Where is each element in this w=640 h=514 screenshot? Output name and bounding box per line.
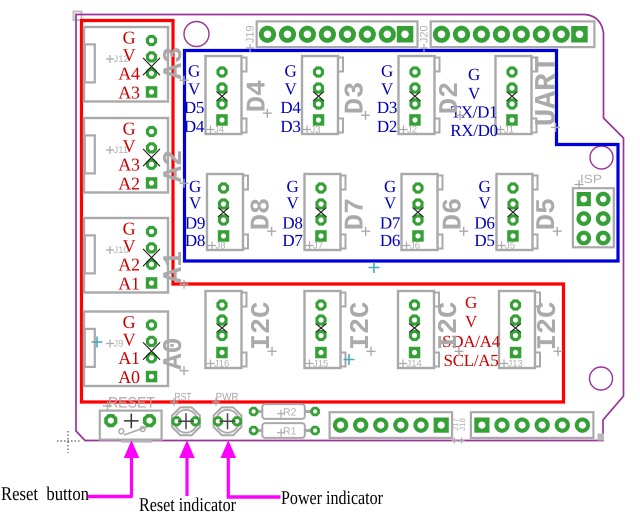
svg-text:J20: J20 xyxy=(419,25,431,43)
connector J6 xyxy=(402,174,443,252)
resistor R2 xyxy=(249,404,320,419)
svg-text:RX/D0: RX/D0 xyxy=(450,121,498,140)
svg-text:I2C: I2C xyxy=(435,302,465,351)
net label D7 xyxy=(342,198,372,236)
net label D6 xyxy=(440,198,470,236)
svg-text:D7: D7 xyxy=(380,214,401,233)
svg-text:V: V xyxy=(384,194,397,213)
svg-text:V: V xyxy=(123,45,136,65)
svg-text:D5: D5 xyxy=(474,231,494,250)
LED indicator RST LED xyxy=(171,407,200,435)
svg-text:D5: D5 xyxy=(533,198,563,230)
svg-text:A0: A0 xyxy=(118,367,140,387)
origin marker xyxy=(57,431,80,453)
net label UART xyxy=(530,56,564,132)
designator J19 xyxy=(245,25,257,52)
svg-text:V: V xyxy=(468,84,481,103)
LED indicator PWR LED xyxy=(213,407,242,435)
blue highlight box (digital) xyxy=(185,51,619,262)
designator J17 xyxy=(451,418,460,444)
connector J1 xyxy=(496,56,537,136)
svg-text:G: G xyxy=(465,293,477,312)
net label A0 xyxy=(160,337,190,375)
svg-text:J19: J19 xyxy=(245,25,257,43)
net label I2C-4 xyxy=(534,302,564,356)
pin labels J2 xyxy=(377,62,397,137)
svg-text:D8: D8 xyxy=(248,198,278,230)
pin labels J10 xyxy=(118,219,139,294)
net label I2C-2 xyxy=(347,302,377,356)
board outline xyxy=(76,15,624,441)
svg-text:J5: J5 xyxy=(505,241,515,252)
svg-text:A2: A2 xyxy=(160,150,190,182)
svg-text:V: V xyxy=(123,136,136,156)
connector J12 xyxy=(84,27,168,102)
svg-text:J6: J6 xyxy=(410,241,420,252)
svg-text:J16: J16 xyxy=(214,359,229,370)
svg-text:SCL/A5: SCL/A5 xyxy=(444,351,499,370)
svg-text:A1: A1 xyxy=(118,273,139,293)
svg-text:A1: A1 xyxy=(160,251,190,283)
svg-text:V: V xyxy=(188,80,201,99)
connector J15 xyxy=(305,291,346,370)
svg-text:A3: A3 xyxy=(118,82,140,102)
svg-text:J14: J14 xyxy=(407,359,422,370)
svg-text:J3: J3 xyxy=(311,125,321,136)
svg-text:D9: D9 xyxy=(185,214,205,233)
designator J20 xyxy=(419,25,431,52)
resistor R1 xyxy=(249,423,320,438)
connector J5 xyxy=(497,174,538,252)
svg-text:G: G xyxy=(188,62,200,81)
header J19 xyxy=(257,21,418,47)
mounting hole top-left xyxy=(184,22,209,47)
svg-text:D7: D7 xyxy=(282,231,303,250)
svg-text:D3: D3 xyxy=(377,98,397,117)
net label D8 xyxy=(248,198,278,236)
svg-text:Reset button: Reset button xyxy=(1,484,89,505)
svg-text:J1: J1 xyxy=(504,125,514,136)
designator J18 xyxy=(458,418,467,444)
connector J7 xyxy=(305,174,346,252)
mounting hole right-upper xyxy=(590,146,613,169)
reset button S1 xyxy=(100,411,162,442)
net label A2 xyxy=(160,150,190,188)
connector J2 xyxy=(399,56,440,136)
callout arrow reset indicator xyxy=(179,440,195,496)
callout line power indicator xyxy=(227,495,281,498)
corner fiducial bottom-right xyxy=(598,434,605,441)
svg-text:D2: D2 xyxy=(436,82,466,114)
connector J16 xyxy=(206,291,247,370)
callout arrow power indicator xyxy=(221,440,237,497)
svg-text:G: G xyxy=(381,62,393,81)
svg-text:G: G xyxy=(468,65,480,84)
corner fiducial top-left xyxy=(74,12,82,21)
connector J4 xyxy=(206,56,247,136)
header J17 xyxy=(330,412,453,438)
callout line reset button xyxy=(88,495,133,498)
svg-text:G: G xyxy=(285,62,297,81)
mounting hole right-lower xyxy=(590,367,613,390)
label PWR xyxy=(212,392,239,407)
svg-text:D8: D8 xyxy=(282,214,302,233)
connector J3 xyxy=(302,56,343,136)
svg-text:A4: A4 xyxy=(118,63,140,83)
svg-text:D4: D4 xyxy=(280,98,301,117)
svg-text:Power indicator: Power indicator xyxy=(281,488,383,509)
red highlight box (analog + I2C) xyxy=(82,21,564,403)
svg-text:V: V xyxy=(381,80,394,99)
callout arrow reset button xyxy=(124,440,140,497)
svg-text:RESET: RESET xyxy=(108,395,155,412)
header J20 xyxy=(431,21,595,47)
pin labels J3 xyxy=(280,62,301,137)
net label D3 xyxy=(342,82,372,120)
net label I2C-3 xyxy=(435,302,465,356)
svg-text:D2: D2 xyxy=(377,117,397,136)
connector J8 xyxy=(207,174,248,252)
svg-text:V: V xyxy=(479,194,492,213)
svg-text:Reset indicator: Reset indicator xyxy=(139,495,236,514)
svg-text:V: V xyxy=(465,312,478,331)
svg-text:D3: D3 xyxy=(342,82,372,114)
svg-text:A3: A3 xyxy=(118,154,140,174)
connector J10 xyxy=(84,218,168,293)
pin labels J4 xyxy=(184,62,205,137)
svg-text:V: V xyxy=(285,80,298,99)
svg-text:A3: A3 xyxy=(160,47,190,79)
svg-text:D5: D5 xyxy=(184,98,204,117)
net label D4 xyxy=(243,80,273,118)
label RST xyxy=(170,392,192,407)
svg-text:R1: R1 xyxy=(283,426,297,438)
svg-text:I2C: I2C xyxy=(534,302,564,351)
svg-text:V: V xyxy=(287,194,300,213)
origin cross teal 1 xyxy=(369,262,380,273)
header ISP xyxy=(573,188,614,247)
svg-text:R2: R2 xyxy=(283,407,297,419)
header J18 xyxy=(471,412,594,438)
svg-text:A2: A2 xyxy=(118,254,139,274)
svg-text:D6: D6 xyxy=(440,198,470,230)
svg-text:V: V xyxy=(123,330,136,350)
svg-text:J8: J8 xyxy=(216,241,226,252)
connector J14 xyxy=(398,291,439,370)
connector J9 xyxy=(84,312,168,387)
svg-text:D7: D7 xyxy=(342,198,372,230)
pin labels J9 xyxy=(118,312,140,387)
net label A3 xyxy=(160,47,190,85)
pin labels J13 xyxy=(442,293,501,370)
svg-text:I2C: I2C xyxy=(347,302,377,351)
svg-text:V: V xyxy=(123,236,136,256)
origin cross teal 3 xyxy=(92,337,103,348)
svg-text:V: V xyxy=(189,194,202,213)
svg-text:J15: J15 xyxy=(313,359,328,370)
pin labels J1 xyxy=(450,65,498,140)
svg-text:I2C: I2C xyxy=(248,302,278,351)
svg-text:UART: UART xyxy=(530,56,564,127)
net label I2C-1 xyxy=(248,302,278,356)
pin labels J5 xyxy=(474,177,494,250)
net label D5 xyxy=(533,198,563,236)
svg-text:J13: J13 xyxy=(508,359,523,370)
connector J11 xyxy=(84,118,168,193)
svg-text:J4: J4 xyxy=(214,125,224,136)
pin labels J7 xyxy=(282,177,303,250)
svg-text:D6: D6 xyxy=(380,231,400,250)
svg-text:D4: D4 xyxy=(243,80,273,112)
pin labels J6 xyxy=(380,177,401,250)
svg-text:D4: D4 xyxy=(184,117,205,136)
svg-text:J2: J2 xyxy=(407,125,417,136)
pin labels J12 xyxy=(118,28,140,103)
svg-text:J18: J18 xyxy=(458,418,467,431)
label ISP xyxy=(575,172,603,189)
origin cross teal 2 xyxy=(344,354,355,365)
svg-text:J7: J7 xyxy=(313,241,323,252)
svg-text:A2: A2 xyxy=(118,173,139,193)
svg-text:D6: D6 xyxy=(474,214,494,233)
net label A1 xyxy=(160,251,190,289)
pin labels J11 xyxy=(118,119,140,194)
svg-text:D3: D3 xyxy=(280,117,300,136)
svg-text:D8: D8 xyxy=(185,231,205,250)
svg-text:A1: A1 xyxy=(118,348,139,368)
connector J13 xyxy=(499,291,540,370)
pin labels J8 xyxy=(185,177,205,250)
svg-text:A0: A0 xyxy=(160,337,190,369)
label RESET xyxy=(103,395,155,412)
net label D2 xyxy=(436,82,466,120)
